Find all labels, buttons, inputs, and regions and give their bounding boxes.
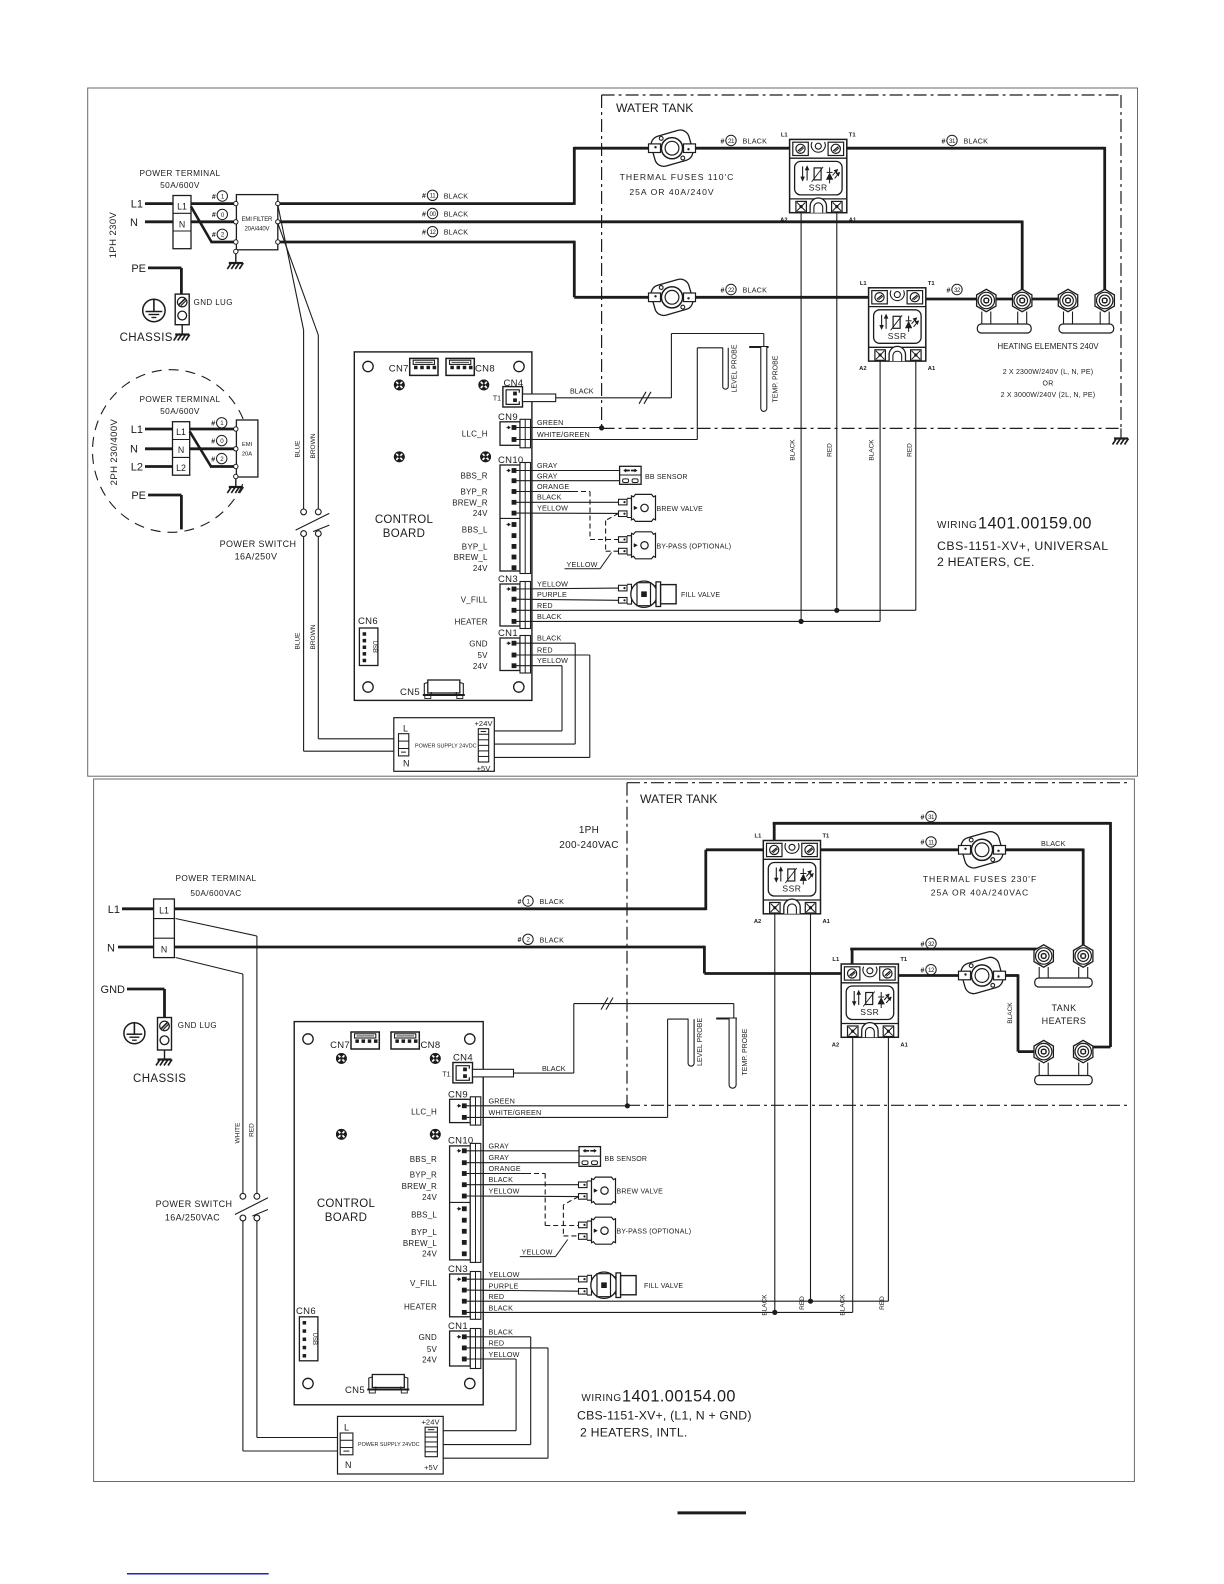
svg-text:1401.00154.00: 1401.00154.00 [622,1388,736,1406]
svg-text:16A/250V: 16A/250V [235,552,278,562]
connector CN10 [498,455,531,574]
svg-text:HEATER: HEATER [404,1302,437,1311]
SSR U1 [780,132,857,223]
SSR U4 A1 wire down [887,1037,889,1301]
svg-text:2 HEATERS, CE.: 2 HEATERS, CE. [937,555,1035,569]
svg-text:A2: A2 [832,1042,839,1048]
svg-text:V_FILL: V_FILL [461,595,488,604]
svg-text:25A OR 40A/240VAC: 25A OR 40A/240VAC [931,888,1030,898]
svg-text:L1: L1 [177,202,187,212]
board screws [394,380,404,390]
svg-text:PE: PE [131,263,146,275]
svg-text:OR: OR [1043,381,1054,388]
svg-text:GREEN: GREEN [489,1096,516,1105]
svg-text:BBS_L: BBS_L [462,526,488,535]
svg-text:25A OR 40A/240V: 25A OR 40A/240V [629,187,714,197]
svg-text:HEATERS: HEATERS [1042,1016,1087,1026]
svg-text:CHASSIS: CHASSIS [120,332,173,344]
wire break mark (p2) [601,998,613,1010]
wire GRAY 2 to BB sensor [516,480,620,482]
svg-text:#: # [721,138,725,145]
svg-text:BREW_R: BREW_R [402,1182,437,1191]
svg-text:LLC_H: LLC_H [411,1108,437,1117]
svg-text:SSR: SSR [860,1007,879,1017]
svg-text:24V: 24V [473,509,488,518]
power terminal block TB1 [173,196,191,249]
svg-text:BLACK: BLACK [537,493,562,502]
wire GND to gnd lug [127,988,165,991]
wire YELLOW dashed brew to by-pass [606,513,619,520]
svg-text:CN7: CN7 [389,364,409,375]
level probe [723,348,729,389]
svg-text:BLACK: BLACK [570,387,594,396]
svg-text:GND LUG: GND LUG [194,298,233,307]
svg-text:CN6: CN6 [358,616,378,627]
heater loop 1 [977,312,1031,334]
SSR U4 A2 wire down [852,1037,854,1312]
svg-text:BREW_L: BREW_L [403,1239,437,1248]
svg-text:T1: T1 [900,957,908,963]
wire N to power terminal [145,220,173,223]
wire BLACK CN1 to power supply [516,642,575,644]
svg-text:HEATING ELEMENTS 240V: HEATING ELEMENTS 240V [997,342,1099,351]
wire #12 BLACK (EMI to thermal fuse F2) [280,241,575,244]
wire id #11 label (p2) [921,837,937,847]
wire BLACK to SSR A2 (p2) [466,1311,853,1313]
svg-text:BLACK: BLACK [964,137,989,146]
heater loop 2 [1059,312,1114,334]
wire RED CN1 to power supply (p2) [466,1347,548,1349]
wire BLUE switch to power supply [303,537,305,752]
svg-text:L2: L2 [131,462,143,474]
svg-text:BLACK: BLACK [790,439,797,461]
svg-text:#: # [947,287,951,294]
SSR U2 A2 wire down [879,361,881,621]
wire YELLOW CN1 to power supply (p2) [466,1358,516,1360]
SSR U3 A2 wire down [774,914,776,1313]
connector CN9 [498,412,531,448]
power supply input terminal (p2) [340,1433,353,1455]
wire RED to SSR A1 (p2) [466,1300,888,1302]
svg-text:PURPLE: PURPLE [489,1281,519,1290]
svg-text:CN9: CN9 [448,1089,468,1100]
wire ORANGE dashed to by-pass valve [516,491,573,493]
svg-text:T1: T1 [493,396,501,403]
svg-text:5V: 5V [427,1345,438,1354]
svg-text:POWER TERMINAL: POWER TERMINAL [175,873,256,883]
svg-text:BBS_R: BBS_R [410,1155,437,1164]
svg-text:CN10: CN10 [448,1136,474,1147]
SSR U3 [754,834,831,925]
wire #11 SSR U3 to fuse F3 (p2) [821,848,960,851]
wire BLACK fuse F4 to tank heater (p2) [1005,974,1018,977]
svg-text:BYP_R: BYP_R [410,1170,437,1179]
wire PE (2PH) [148,494,181,497]
svg-text:A1: A1 [928,366,936,372]
svg-text:CN10: CN10 [498,455,524,466]
svg-text:BLACK: BLACK [869,439,876,461]
power supply unit [394,718,495,772]
wire RED to SSR A1 [516,609,916,611]
svg-text:20A: 20A [242,452,252,458]
wire id #32 label [947,284,963,294]
wire id #2 label [518,934,534,944]
svg-text:WHITE/GREEN: WHITE/GREEN [489,1108,542,1117]
svg-text:ORANGE: ORANGE [489,1164,521,1173]
EMI filter FL1 [236,195,277,250]
wire N (2PH) [145,447,173,450]
wire id #31 label (p2) [921,811,937,821]
svg-text:BLUE: BLUE [295,632,302,650]
water tank boundary (p2, dash-dot) [626,783,628,1106]
svg-text:2 HEATERS, INTL.: 2 HEATERS, INTL. [580,1426,688,1440]
svg-text:POWER SUPPLY 24VDC: POWER SUPPLY 24VDC [415,744,477,750]
svg-text:2PH 230/400V: 2PH 230/400V [109,418,120,485]
level probe (p2) [688,1019,694,1066]
svg-text:BREW VALVE: BREW VALVE [657,506,704,513]
svg-text:GND: GND [469,639,487,648]
gnd lug [175,294,189,325]
EMI filter (2PH, partial) [236,420,258,477]
svg-text:1PH 230V: 1PH 230V [108,211,119,258]
wire GREEN to tank (p2) [466,1105,627,1107]
wire L1 to power terminal [145,202,173,205]
wire YELLOW to fill valve (p2) [466,1278,579,1280]
svg-text:T1: T1 [849,132,857,138]
svg-text:TANK: TANK [1052,1003,1077,1013]
svg-text:5V: 5V [478,651,489,660]
svg-text:N: N [130,444,138,456]
svg-text:GND LUG: GND LUG [178,1021,217,1030]
wire GRAY 2 (p2) [466,1162,579,1164]
svg-text:A1: A1 [849,218,857,224]
svg-text:EMI FILTER: EMI FILTER [242,217,273,223]
svg-text:RED: RED [537,646,553,655]
connector CN8 (p2) [391,1032,419,1049]
svg-text:200-240VAC: 200-240VAC [559,840,619,851]
tank heater terminals (p2) [1034,945,1053,967]
ground symbol under gnd lug [181,325,183,335]
ground symbol under EMI filter [227,263,243,269]
svg-text:50A/600V: 50A/600V [160,180,200,190]
svg-text:CN6: CN6 [296,1306,316,1317]
wire L1 (2PH) [145,428,173,431]
mounting holes (p2) [303,1034,313,1044]
svg-text:POWER TERMINAL: POWER TERMINAL [139,394,220,404]
power supply output terminal [478,729,488,762]
control board outline (p2) [294,1022,483,1405]
svg-text:#: # [211,438,215,445]
svg-text:#: # [721,287,725,294]
wire BLACK CN4 to temp probe [556,397,672,399]
wire #00 BLACK (EMI to heating element) [280,220,1022,223]
EMI filter ground stem [235,254,237,263]
svg-text:L1: L1 [755,834,763,840]
SSR U1 A2 wire down [800,213,802,622]
svg-text:BROWN: BROWN [310,433,317,458]
panel 1 border (CE universal diagram) [88,88,1138,776]
wire id #1 label [518,896,534,906]
svg-text:SSR: SSR [888,331,907,341]
wire GREEN to water tank [516,427,602,429]
svg-text:RED: RED [489,1339,505,1348]
wire N row (p2) [118,946,154,949]
svg-text:BLACK: BLACK [542,1064,566,1073]
wire ORANGE dashed (p2) [466,1173,526,1175]
svg-text:16A/250VAC: 16A/250VAC [165,1213,220,1223]
svg-text:USB: USB [311,1333,317,1345]
wire #1 BLACK L1 to SSR U3 [174,907,705,910]
brew valve (p2) [579,1177,616,1204]
wire TB1 N to EMI pin2 [191,220,234,223]
svg-text:RED: RED [879,1296,886,1310]
wire BLACK to brew valve (p2) [466,1184,579,1186]
svg-text:CN7: CN7 [330,1040,350,1051]
svg-text:ORANGE: ORANGE [537,482,569,491]
wire id #31 label [942,135,958,145]
mounting holes [363,361,373,371]
SSR U3 A1 wire down [810,914,812,1301]
svg-text:1401.00159.00: 1401.00159.00 [978,515,1092,533]
CN4 cable sleeve [523,394,556,402]
svg-text:WHITE/GREEN: WHITE/GREEN [537,430,590,439]
svg-text:50A/600V: 50A/600V [160,406,200,416]
svg-text:WIRING: WIRING [581,1393,621,1404]
water tank boundary (dash-dot) [601,95,603,428]
svg-text:BLACK: BLACK [489,1303,514,1312]
SSR U2 [859,281,936,372]
temp probe [749,346,768,348]
svg-text:#: # [921,814,925,821]
wire id #00 label [422,208,438,218]
wire id #11 label [422,190,438,200]
svg-text:#: # [212,232,216,239]
svg-text:T1: T1 [928,281,936,287]
svg-text:CN3: CN3 [498,574,518,585]
wire id #21 label [721,135,737,145]
wire break mark [639,392,651,404]
svg-text:CONTROL: CONTROL [375,514,434,526]
wire WHITE/GREEN to level probe (p2) [466,1116,668,1118]
svg-text:BLACK: BLACK [840,1294,847,1316]
svg-text:LLC_H: LLC_H [462,429,488,438]
panel 2 border (INTL diagram) [94,779,1135,1482]
svg-text:BLACK: BLACK [1041,839,1066,848]
fill valve [619,581,677,607]
wire id #0 (2PH) [211,435,227,445]
wire id #2 [212,229,228,239]
svg-text:BLACK: BLACK [743,286,768,295]
wire BLACK CN1 to power supply (p2) [466,1336,531,1338]
wire YELLOW dashed (p2) [563,1197,578,1205]
svg-text:CN9: CN9 [498,412,518,423]
svg-text:TEMP. PROBE: TEMP. PROBE [742,1028,749,1075]
wire #31 (p2) [773,823,776,842]
svg-text:24V: 24V [422,1249,437,1258]
svg-text:RED: RED [799,1296,806,1310]
svg-text:A2: A2 [859,366,866,372]
svg-text:24V: 24V [422,1356,437,1365]
svg-text:CN1: CN1 [498,628,518,639]
wires TB1 to EMI (2PH) [190,428,234,431]
svg-text:BBS_L: BBS_L [411,1211,437,1220]
svg-text:+5V: +5V [477,764,491,773]
2PH detail dashed circle [93,370,250,533]
svg-text:BLACK: BLACK [444,210,469,219]
svg-text:BLACK: BLACK [489,1327,514,1336]
svg-text:WHITE: WHITE [234,1122,241,1144]
svg-text:CN3: CN3 [448,1264,468,1275]
svg-text:#: # [211,456,215,463]
svg-text:GRAY: GRAY [537,461,558,470]
svg-text:BYP_R: BYP_R [460,488,487,497]
svg-text:GREEN: GREEN [537,418,564,427]
svg-text:YELLOW: YELLOW [537,656,568,665]
by-pass valve [619,532,656,559]
svg-text:BLACK: BLACK [540,897,565,906]
connector CN1 (p2) [448,1321,481,1369]
svg-text:YELLOW: YELLOW [537,580,568,589]
svg-text:2 X 3000W/240V (2L, N, PE): 2 X 3000W/240V (2L, N, PE) [1001,392,1096,399]
wire BROWN from EMI to power switch [278,223,319,335]
svg-text:A2: A2 [754,919,761,925]
svg-text:CN5: CN5 [345,1385,365,1396]
junction dot RED/A1 [834,608,839,613]
svg-text:A1: A1 [900,1042,908,1048]
wire #2 BLACK N to SSR U4 [174,946,704,949]
svg-text:YELLOW: YELLOW [489,1187,520,1196]
wire GRAY 1 (p2) [466,1150,579,1152]
thermal fuse F1 [649,128,696,169]
wire id #32 label (p2) [921,938,937,948]
svg-text:24V: 24V [473,564,488,573]
svg-text:CN8: CN8 [475,364,495,375]
svg-text:T1: T1 [442,1072,450,1079]
power switch S1 [296,509,330,536]
svg-text:+24V: +24V [421,1418,439,1427]
svg-text:GRAY: GRAY [489,1141,510,1150]
svg-text:EMI: EMI [242,442,253,448]
svg-text:N: N [161,945,167,955]
power supply input terminal [399,734,409,756]
svg-text:BOARD: BOARD [325,1212,367,1224]
wire YELLOW to brew valve (p2) [466,1195,579,1198]
wire #32 (p2) [851,949,854,966]
svg-text:L2: L2 [176,463,186,473]
svg-text:BLUE: BLUE [295,440,302,458]
svg-text:N: N [403,759,410,769]
svg-text:#: # [942,138,946,145]
svg-text:YELLOW: YELLOW [489,1270,520,1279]
svg-text:YELLOW: YELLOW [537,504,568,513]
svg-text:RED: RED [827,443,834,457]
SSR U4 [832,957,909,1048]
wire L2 (2PH) [145,465,173,468]
temp probe (p2) [716,1018,737,1020]
brew valve [619,494,656,521]
svg-text:N: N [130,217,138,229]
svg-text:L1: L1 [131,424,143,436]
svg-text:20A/440V: 20A/440V [245,227,270,233]
thermal fuse F4 [959,955,1006,996]
ground at tank corner [1120,428,1122,438]
wire YELLOW to fill valve [516,587,619,590]
svg-text:CN5: CN5 [400,687,420,698]
board screws (p2) [337,1054,347,1064]
thermal fuse F3 [959,830,1006,871]
control board outline [354,352,532,701]
wire TB1 L1 to EMI pin1 [191,202,234,205]
svg-text:L1: L1 [159,906,169,916]
svg-text:FILL VALVE: FILL VALVE [644,1283,683,1290]
svg-text:BY-PASS (OPTIONAL): BY-PASS (OPTIONAL) [657,543,732,550]
svg-text:A1: A1 [823,919,831,925]
svg-text:RED: RED [906,443,913,457]
svg-text:BREW VALVE: BREW VALVE [617,1189,664,1196]
svg-text:L: L [344,1423,349,1433]
wire SSR U2 T1 to heating elements [926,298,1068,301]
wire id #1 [212,191,228,201]
svg-text:1PH: 1PH [579,825,599,836]
svg-text:N: N [345,1460,352,1470]
SSR U1 A1 wire down [836,213,838,611]
wire WHITE switch to power supply (p2) [242,1221,244,1451]
wire L1 row (p2) [122,907,154,910]
power switch S1 (p2) [235,1193,268,1221]
svg-text:50A/600VAC: 50A/600VAC [190,888,241,898]
connector CN3 (p2) [448,1264,481,1320]
svg-text:BREW_L: BREW_L [454,553,488,562]
wire YELLOW CN1 to power supply [516,665,562,667]
svg-text:N: N [178,445,184,455]
svg-text:CN8: CN8 [421,1040,441,1051]
svg-text:#: # [921,941,925,948]
wire BLACK to SSR A2 [516,620,880,622]
wire RED (L1 to power switch) [176,919,257,937]
wire id #12 label [422,227,438,237]
svg-text:A2: A2 [780,218,787,224]
gnd lug (p2) [158,1018,172,1051]
wire RED CN1 to power supply [516,654,590,656]
fill valve (p2) [579,1272,637,1298]
svg-text:WATER TANK: WATER TANK [616,101,693,115]
svg-text:GRAY: GRAY [489,1153,510,1162]
connector CN1 [498,628,531,673]
wire id #0 [212,209,228,219]
BB sensor (p2) [579,1147,601,1167]
svg-text:POWER SWITCH: POWER SWITCH [220,539,297,549]
wire #21 BLACK (fuse F1 to SSR U1) [694,147,790,150]
svg-text:24V: 24V [473,662,488,671]
svg-text:GND: GND [101,984,126,996]
svg-text:SSR: SSR [782,884,801,894]
protective earth symbol (p2) [124,1023,145,1044]
svg-text:LEVEL PROBE: LEVEL PROBE [697,1018,704,1066]
junction dot BLACK/A2 [799,619,804,624]
svg-text:BOARD: BOARD [383,528,425,540]
svg-text:THERMAL FUSES 230'F: THERMAL FUSES 230'F [923,874,1037,884]
wire WHITE (N to power switch) [176,958,243,975]
wire PURPLE to fill valve (p2) [466,1290,579,1291]
svg-text:YELLOW: YELLOW [567,560,598,569]
by-pass valve (p2) [579,1217,616,1244]
svg-text:RED: RED [537,601,553,610]
svg-text:L1: L1 [832,957,840,963]
thermal fuse F2 [649,277,696,318]
wire #11 BLACK (EMI to thermal fuse F1) [280,202,575,205]
wire BROWN switch to power supply [317,537,319,739]
svg-text:BBS_R: BBS_R [460,472,487,481]
